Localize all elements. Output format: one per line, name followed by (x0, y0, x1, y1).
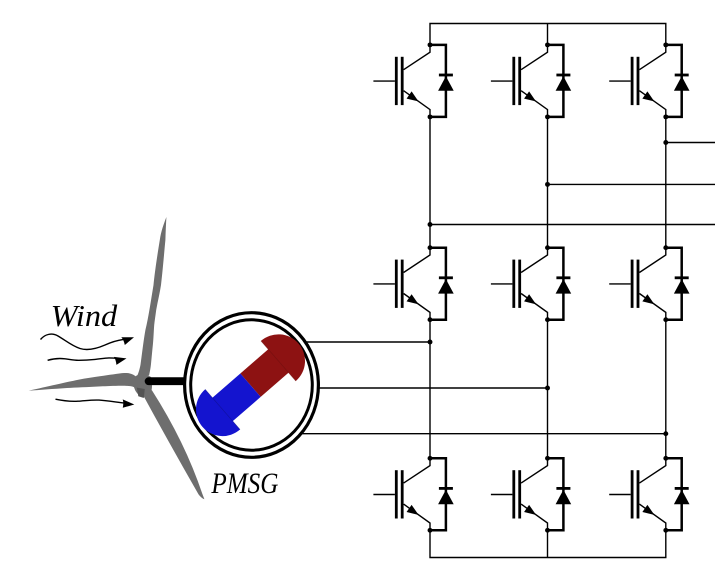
node: input tap 2 on column 2 (545, 386, 550, 391)
wind arrow 1 (41, 334, 136, 349)
node: output tap B on column 2 (545, 182, 550, 187)
wind turbine blade left (29, 373, 140, 392)
wire: output phase line A (column 3 to right edge) (666, 142, 715, 144)
IGBT switch S13 with antiparallel diode (row 1, column 3) (609, 42, 689, 119)
IGBT switch S32 with antiparallel diode (row 3, column 2) (491, 456, 571, 533)
IGBT switch S12 with antiparallel diode (row 1, column 2) (491, 42, 571, 119)
turbine hub (134, 374, 152, 397)
node: input tap 1 on column 1 (428, 340, 433, 345)
wire: column 2 upper link (547, 117, 549, 249)
wire: column 1 upper link (429, 117, 431, 249)
wind turbine blade down (140, 390, 204, 500)
PMSG generator inner ring (191, 320, 313, 450)
svg-text:Wind: Wind (51, 298, 118, 333)
wire: input phase line 3 (PMSG to column 3) (252, 433, 666, 435)
shaft (149, 377, 191, 385)
wire: input phase line 2 (PMSG to column 2) (252, 387, 548, 389)
wire: top bus (430, 24, 666, 47)
node: input tap 3 on column 3 (663, 431, 668, 436)
wire: column 3 lower link (665, 320, 667, 459)
wind arrow 2 (48, 356, 127, 365)
blue cap seam (205, 389, 240, 429)
IGBT switch S22 with antiparallel diode (row 2, column 2) (491, 245, 571, 322)
wire: column 3 upper link (665, 117, 667, 249)
wire: column 1 lower link (429, 320, 431, 459)
hub lower notch (137, 388, 145, 398)
rotor magnet north pole (red) (233, 323, 316, 405)
IGBT switch S11 with antiparallel diode (row 1, column 1) (373, 42, 453, 119)
wire: output phase line C (column 1 to right edge) (430, 224, 715, 226)
PMSG generator outer ring (185, 313, 319, 458)
node: output tap A on column 3 (663, 140, 668, 145)
svg-text:PMSG: PMSG (211, 467, 279, 500)
rotor magnet (185, 323, 316, 447)
wind arrow 3 (56, 399, 135, 410)
IGBT switch S21 with antiparallel diode (row 2, column 1) (373, 245, 453, 322)
wire: bottom bus (430, 529, 666, 558)
rotor magnet south pole (blue) (185, 365, 268, 447)
wind turbine blade up (137, 217, 166, 375)
wire: column 2 lower link (547, 320, 549, 459)
wire: input phase line 1 (PMSG to column 1) (252, 341, 430, 343)
IGBT switch S23 with antiparallel diode (row 2, column 3) (609, 245, 689, 322)
red cap seam (261, 341, 296, 381)
node: output tap C on column 1 (428, 222, 433, 227)
IGBT switch S33 with antiparallel diode (row 3, column 3) (609, 456, 689, 533)
IGBT switch S31 with antiparallel diode (row 3, column 1) (373, 456, 453, 533)
wire: output phase line B (column 2 to right edge) (548, 183, 715, 185)
